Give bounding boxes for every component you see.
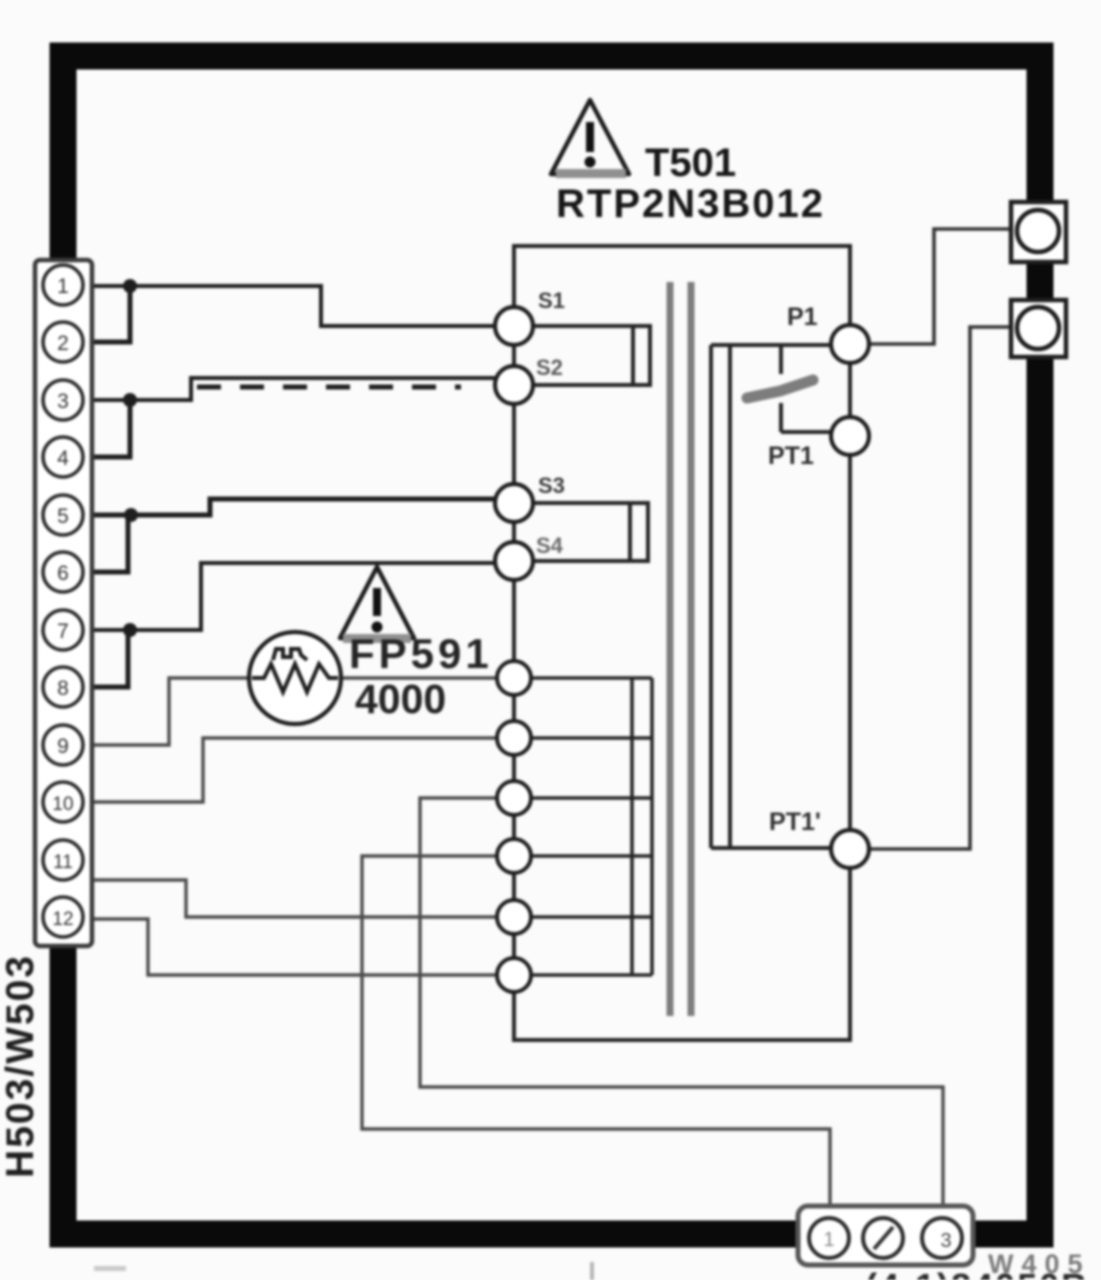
wire pin7 to S4	[91, 563, 494, 630]
top square terminal	[1011, 202, 1066, 262]
wire pin1 to junction	[91, 286, 497, 326]
svg-text:PT1': PT1'	[769, 808, 821, 836]
svg-text:PT1: PT1	[768, 442, 814, 470]
lower square terminal	[1011, 300, 1066, 357]
warning triangle for FP591	[340, 567, 414, 643]
connector pin 10	[43, 782, 83, 822]
svg-text:S1: S1	[538, 288, 565, 313]
dashed wire segment near S2	[197, 385, 461, 390]
wire pin6 tie	[91, 513, 128, 572]
thermal protector switch between P1 and PT1	[747, 345, 832, 432]
transformer T501 outline box	[514, 246, 850, 1040]
svg-text:7: 7	[57, 620, 69, 643]
svg-text:H503/W503: H503/W503	[0, 954, 42, 1178]
junction node pins7-8	[123, 623, 137, 637]
wire pin5 to S3	[91, 499, 495, 515]
wire winding terminal 4 to bottom connector pin1	[362, 856, 830, 1206]
terminal PT1	[831, 417, 869, 455]
svg-text:S3: S3	[538, 473, 565, 498]
wire pin4 tie	[91, 398, 130, 457]
connector pin 1	[43, 265, 83, 305]
terminal S2	[495, 366, 533, 404]
secondary winding group (6 taps)	[528, 678, 652, 975]
connector pin 9	[43, 725, 83, 765]
faint tick bottom center	[590, 1262, 594, 1280]
connector pin 11	[43, 840, 83, 880]
junction node pins5-6	[124, 508, 138, 522]
winding tap terminal 6	[497, 958, 531, 992]
terminal S1	[495, 307, 533, 345]
svg-text:8: 8	[57, 677, 69, 700]
terminal P1	[831, 325, 869, 363]
winding tap terminal 3	[497, 781, 531, 815]
terminal S4	[495, 542, 533, 580]
svg-text:10: 10	[52, 794, 73, 815]
secondary winding S1-S2	[530, 326, 650, 385]
wire pin10 to winding terminal	[91, 738, 497, 802]
svg-text:11: 11	[53, 852, 73, 873]
secondary winding S3-S4	[529, 503, 648, 561]
svg-text:RTP2N3B012: RTP2N3B012	[556, 182, 825, 226]
wire pin9 to thermal fuse FP591	[91, 678, 497, 745]
svg-text:12: 12	[52, 909, 73, 930]
connector H503/W503 body	[35, 260, 92, 946]
svg-text:3: 3	[940, 1230, 951, 1252]
winding tap terminal 1	[497, 661, 531, 695]
faint mark bottom left	[94, 1266, 126, 1271]
bottom connector pin 1	[809, 1218, 849, 1258]
connector pin 2	[43, 322, 83, 362]
wire pin8 tie	[91, 628, 128, 687]
svg-text:2: 2	[57, 332, 69, 355]
svg-text:1: 1	[823, 1229, 834, 1251]
connector pin 3	[43, 380, 83, 420]
connector pin 12	[43, 897, 83, 937]
connector pin 4	[43, 437, 83, 477]
wire P1 to top square terminal	[868, 229, 1013, 344]
wire PT1' to lower square terminal	[868, 327, 1013, 849]
svg-text:T501: T501	[645, 141, 736, 185]
winding tap terminal 2	[497, 721, 531, 755]
svg-text:FP591: FP591	[349, 630, 493, 677]
winding tap terminal 4	[497, 839, 531, 873]
wire winding terminal 3 to bottom connector pin3	[420, 798, 943, 1206]
winding tap terminal 5	[497, 900, 531, 934]
connector pin 7	[43, 610, 83, 650]
transformer core	[667, 282, 674, 1016]
junction node pins3-4	[123, 393, 137, 407]
connector pin 5	[43, 495, 83, 535]
svg-text:S2: S2	[536, 355, 563, 380]
svg-text:S4: S4	[536, 533, 564, 558]
warning triangle for T501	[551, 100, 629, 178]
bottom connector W405 body	[798, 1206, 973, 1265]
bottom connector pin 2	[863, 1218, 903, 1258]
terminal PT1'	[831, 830, 869, 868]
wire pin3 to S2	[91, 378, 497, 400]
svg-text:4000: 4000	[355, 676, 446, 722]
wire pin2 tie	[91, 284, 130, 342]
connector pin 6	[43, 552, 83, 592]
svg-text:1: 1	[57, 275, 69, 298]
thermal fuse FP591	[249, 632, 341, 724]
connector pin 8	[43, 667, 83, 707]
wire pin12 to winding terminal	[91, 919, 497, 975]
svg-text:3: 3	[57, 390, 69, 413]
bottom connector pin 3	[922, 1218, 962, 1258]
junction node pins1-2	[123, 279, 137, 293]
svg-text:(4-1)84050B: (4-1)84050B	[865, 1266, 1089, 1280]
svg-text:4: 4	[57, 447, 69, 470]
svg-text:5: 5	[57, 505, 69, 528]
svg-text:9: 9	[57, 735, 69, 758]
primary winding P1-PT1'	[711, 345, 832, 848]
wire pin11 to winding terminal	[91, 880, 497, 917]
terminal S3	[495, 484, 533, 522]
svg-text:P1: P1	[787, 303, 818, 331]
svg-text:6: 6	[57, 562, 69, 585]
